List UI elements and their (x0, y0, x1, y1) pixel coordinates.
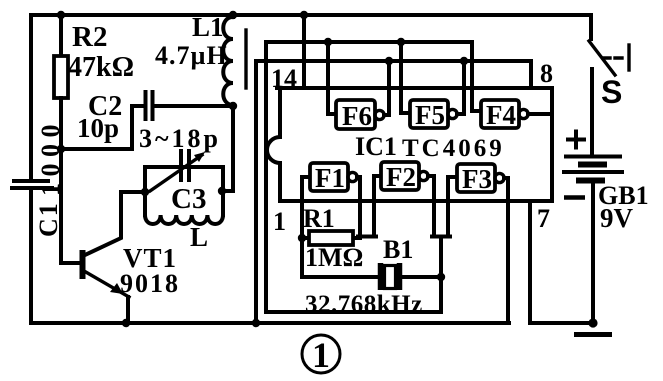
svg-text:1MΩ: 1MΩ (305, 243, 363, 272)
svg-text:47kΩ: 47kΩ (68, 52, 134, 83)
svg-text:R2: R2 (72, 21, 107, 53)
gate F2 (374, 176, 381, 235)
node C3 right (218, 187, 226, 195)
capacitor C2 (144, 92, 148, 119)
svg-text:C1: C1 (34, 201, 63, 237)
svg-text:1: 1 (312, 335, 330, 375)
svg-text:TC4069: TC4069 (402, 135, 505, 162)
wire bus A with crystal loop (266, 42, 441, 312)
wire bus B (256, 61, 531, 88)
svg-text:C3: C3 (171, 183, 206, 215)
wire top border (31, 13, 591, 17)
wire divider (ground riser) (254, 61, 258, 323)
svg-text:L1: L1 (192, 12, 224, 42)
svg-text:R1: R1 (303, 204, 335, 233)
transistor VT1 (80, 250, 86, 279)
svg-text:IC1: IC1 (355, 132, 397, 161)
wire hook2 (432, 235, 450, 239)
node R2 top (57, 11, 65, 19)
switch S (589, 15, 593, 39)
wire hook1 (358, 235, 376, 239)
node L1 bottom (229, 102, 237, 110)
gate F4 (472, 42, 481, 111)
svg-text:9018: 9018 (120, 269, 180, 298)
node C3 left (141, 188, 149, 196)
svg-text:F2: F2 (386, 162, 416, 192)
svg-text:8: 8 (540, 59, 553, 88)
capacitor C3 tank box (145, 167, 223, 215)
trimmer plates (179, 151, 183, 180)
wire pin14 feed (302, 15, 306, 88)
svg-text:F1: F1 (315, 163, 345, 193)
wire pin1 drop (302, 177, 380, 277)
svg-text:B1: B1 (383, 235, 413, 264)
svg-text:4.7µH: 4.7µH (155, 41, 228, 70)
svg-text:3~18p: 3~18p (139, 124, 221, 153)
wire collector to C3 (85, 192, 145, 255)
capacitor C1 (14, 179, 48, 183)
svg-text:F3: F3 (462, 164, 492, 194)
node figure label (302, 335, 340, 373)
wire left border upper (29, 15, 33, 179)
wire pin7 (530, 201, 591, 323)
svg-text:L: L (190, 222, 208, 252)
op-amp U1 (IC box TC4069) (267, 88, 552, 201)
svg-text:1: 1 (273, 207, 286, 236)
inductor L1 (229, 11, 237, 19)
svg-text:F6: F6 (342, 101, 372, 131)
svg-text:S: S (601, 74, 622, 110)
resistor R1 (302, 236, 360, 240)
gate F5 (401, 42, 410, 113)
trimmer arrow (150, 155, 202, 191)
wire bottom border (31, 321, 509, 325)
svg-text:7: 7 (537, 204, 550, 233)
svg-text:F4: F4 (486, 100, 516, 130)
svg-text:9V: 9V (600, 203, 634, 233)
wire L1 to C3 (223, 106, 233, 191)
battery GB1 (590, 69, 594, 155)
svg-text:F5: F5 (415, 100, 445, 130)
crystal B1 (378, 263, 384, 290)
svg-text:32.768kHz: 32.768kHz (305, 291, 423, 318)
wire C2 to L1 (154, 104, 232, 108)
svg-text:14: 14 (271, 64, 297, 93)
node R2/C2 junction (57, 145, 65, 153)
wire left border lower (29, 190, 33, 323)
gate F6 (328, 42, 337, 114)
inductor L (tank coil) (145, 215, 223, 224)
wire C2 branch (61, 106, 144, 149)
ground (588, 318, 597, 327)
resistor R2 (59, 15, 63, 56)
gate F3 (448, 177, 457, 235)
svg-text:10p: 10p (77, 113, 119, 143)
gate F1 (302, 175, 310, 179)
